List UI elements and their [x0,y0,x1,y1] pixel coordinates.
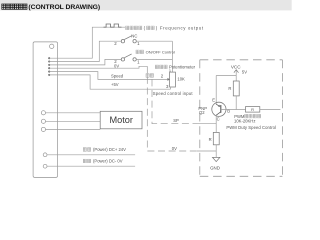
power terminals (2) [43,153,47,157]
label 电源（Power）DC+ 24V [83,148,86,152]
ground symbol [213,157,220,161]
motor M [100,111,142,129]
wire: 0V net from pin4 [49,66,147,68]
VCC arrow [235,70,237,75]
wire: vertical junction to potentiometer pin1 [171,41,173,72]
wire: pin2 to NC switch [49,41,121,61]
svg-text:Q2: Q2 [199,110,205,115]
svg-text:(Power) DC+ 24V: (Power) DC+ 24V [93,147,126,152]
svg-text:10K: 10K [177,77,185,82]
svg-text:Speed control input: Speed control input [153,91,194,96]
svg-text:5V: 5V [242,69,247,74]
svg-text:2: 2 [161,74,164,79]
label 电位器 Potentiometer [155,65,158,69]
base lead [221,109,246,111]
label 调速 [146,74,149,78]
svg-text:(Power) DC- 0V: (Power) DC- 0V [93,159,123,164]
wire: collector down [215,115,217,132]
motor terminals (3) [41,111,45,115]
mounting hole [50,44,54,48]
resistor R (pull-up) [235,76,237,82]
transistor Q2 PNP [212,102,226,116]
svg-text:GND: GND [210,165,220,170]
label 电源（Power）DC- 0V [83,159,86,163]
svg-text:Motor: Motor [109,115,133,125]
svg-text:Potentiometer: Potentiometer [169,65,196,70]
controller / driver box [33,42,57,178]
svg-text:Speed: Speed [111,74,124,79]
svg-text:3: 3 [166,84,169,89]
svg-text:VCC: VCC [231,64,241,69]
customer control dashed box [200,60,283,177]
wire: S2 out to junction column [136,58,172,60]
svg-text:R: R [209,137,212,142]
wire: base resistor to box edge (PWM input) [260,109,281,111]
svg-text:E: E [212,98,215,103]
wire: Speed net from pin5 [49,72,167,80]
wire: resistor to ground [215,145,217,158]
svg-text:C: C [217,117,220,122]
label 速度输出（频率）Frequency output [126,26,129,30]
svg-text:10K-20KHz: 10K-20KHz [234,119,255,124]
switch S2 (ON/OFF) [121,58,124,61]
svg-text:Frequency output: Frequency output [160,26,204,31]
square wave pulse symbol [104,24,122,27]
svg-text:R: R [251,107,254,112]
terminal dots (6 signal pins) [48,57,50,59]
emitter arrow (PNP) [216,104,219,106]
svg-text:SP: SP [173,118,179,123]
wiper arrowhead into pot [167,78,170,81]
switch S1 (NC) [121,40,124,43]
svg-text:1: 1 [137,59,140,64]
title text 控制接线图示 (CONTROL DRAWING) [2,4,6,9]
svg-text:(CONTROL DRAWING): (CONTROL DRAWING) [28,4,100,11]
svg-text:R: R [228,86,231,91]
dashed 0V link [147,66,197,151]
wire: +5V net from pin6 [49,75,170,89]
resistor R (base, horizontal) [246,107,260,113]
resistor R (collector) [213,132,219,144]
wire: pin3 to ON/OFF switch [49,59,121,65]
wire: VCC tee to emitter branch [216,75,236,77]
label 启停 ON/OFF Control [136,50,139,54]
wire: emitter drop [215,76,217,105]
svg-text:ON/OFF Control: ON/OFF Control [146,50,175,55]
svg-text:1: 1 [137,41,140,46]
svg-text:NC: NC [131,33,137,38]
wire: S1 out to junction column [136,40,172,42]
svg-text:+5V: +5V [111,82,119,87]
potentiometer RP 10K [170,72,176,87]
svg-text:1: 1 [169,68,171,73]
svg-text:PWM Duty Speed Control: PWM Duty Speed Control [226,125,276,130]
svg-text:(: ( [144,26,146,31]
pot pin3 lead to +5V [170,87,172,89]
wire: frequency output from pin1 [49,27,125,58]
header title bar [0,0,292,10]
svg-text:): ) [156,26,158,31]
svg-text:0V: 0V [114,64,119,69]
dashed SP link (speed PWM) [152,79,197,123]
svg-text:0V: 0V [172,146,177,151]
collector slant [216,112,221,115]
